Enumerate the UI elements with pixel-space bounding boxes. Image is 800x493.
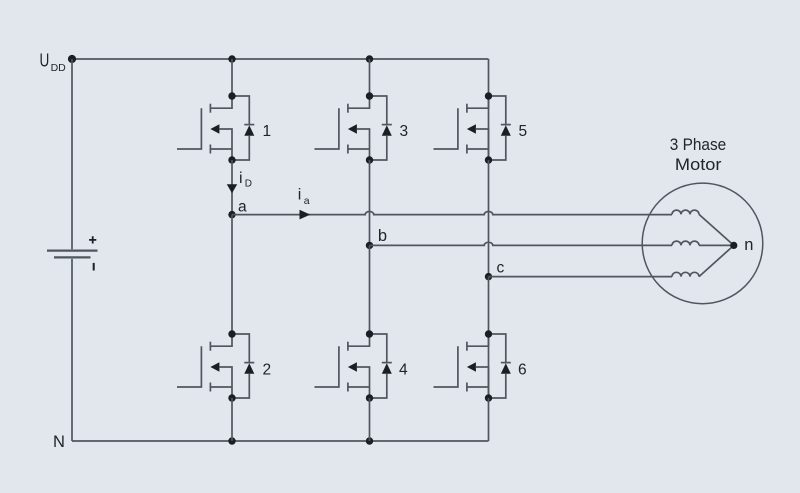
wire: winding c to star point n — [699, 245, 734, 276]
wire: Q6 source to N rail — [488, 398, 490, 441]
battery positive plate — [47, 249, 98, 251]
wire: node b down to Q4 drain — [369, 245, 371, 334]
svg-text:4: 4 — [399, 362, 408, 379]
winding phase a inductor — [672, 210, 699, 214]
battery negative plate — [54, 256, 91, 258]
motor circle outline — [642, 183, 763, 304]
node: junction top rail / phase leg 2 — [366, 55, 373, 62]
wire: Q3 source down across line a to node b — [369, 160, 371, 245]
svg-text:i: i — [298, 187, 302, 204]
svg-text:N: N — [53, 433, 65, 451]
svg-text:c: c — [497, 259, 505, 276]
svg-text:3 Phase: 3 Phase — [670, 135, 727, 154]
wire: leg2 rail to Q3 drain — [369, 59, 371, 96]
arrow iD current direction — [227, 184, 237, 193]
wire: phase line b from node b to motor with crossover hop — [370, 242, 673, 245]
node b dot — [366, 242, 373, 249]
transistor 1: N-MOSFET with body diode, high side phase a — [177, 92, 254, 163]
wire: phase line a from node a to motor with crossover hops — [232, 212, 672, 215]
transistor 4: N-MOSFET with body diode, low side phase b — [315, 330, 392, 401]
arrow ia current direction on phase a — [300, 210, 311, 220]
winding phase c inductor — [672, 272, 699, 276]
svg-text:i: i — [239, 170, 243, 187]
wire: winding a to star point n — [699, 214, 734, 245]
node: UDD terminal dot — [68, 55, 76, 63]
svg-text:3: 3 — [400, 123, 409, 140]
svg-text:DD: DD — [51, 62, 67, 74]
wire: leg1 rail to Q1 drain — [231, 59, 233, 96]
svg-text:2: 2 — [263, 362, 272, 379]
wire: leg3 rail corner to Q5 drain — [488, 59, 490, 96]
svg-text:a: a — [304, 195, 310, 207]
wire: top supply rail UDD — [72, 58, 489, 60]
wire: leg3 vertical through Q5 drain to source — [488, 96, 490, 160]
winding phase b inductor — [672, 241, 699, 245]
svg-text:D: D — [245, 178, 252, 189]
wire: Q4 source to N rail — [369, 398, 371, 441]
svg-text:n: n — [744, 236, 753, 254]
wire: winding b to star point n — [699, 244, 734, 246]
wire: phase line c from node c to motor — [489, 276, 673, 278]
transistor 3: N-MOSFET with body diode, high side phase b — [315, 92, 392, 163]
node n star point dot — [730, 242, 737, 249]
wire: Q1 source to node a — [231, 160, 233, 215]
wire: left branch from battery - plate down to N rail — [71, 259, 73, 441]
node: junction bottom rail / phase leg 2 — [366, 437, 373, 444]
svg-text:U: U — [40, 50, 50, 70]
transistor 6: N-MOSFET with body diode, low side phase c — [434, 330, 511, 401]
wire: Q5 source down across lines a and b to node c — [488, 160, 490, 277]
svg-text:Motor: Motor — [675, 155, 722, 174]
wire: left branch from UDD rail down to battery + plate — [71, 59, 73, 249]
wire: bottom rail N — [72, 440, 489, 442]
battery plus sign — [89, 236, 96, 243]
svg-text:b: b — [378, 227, 387, 245]
wire: node a down to Q2 drain — [231, 215, 233, 334]
wire: Q2 source to N rail — [231, 398, 233, 441]
svg-text:5: 5 — [519, 123, 528, 140]
node c dot — [485, 273, 492, 280]
svg-text:6: 6 — [518, 362, 527, 379]
battery minus mark — [93, 263, 95, 271]
svg-text:1: 1 — [263, 123, 272, 140]
node a dot — [228, 211, 235, 218]
node: junction top rail / phase leg 1 — [228, 55, 235, 62]
wire: leg3 vertical through Q6 drain to source — [488, 334, 490, 398]
transistor 2: N-MOSFET with body diode, low side phase a — [177, 330, 254, 401]
svg-text:a: a — [238, 198, 247, 215]
wire: node c down to Q6 drain — [488, 277, 490, 334]
transistor 5: N-MOSFET with body diode, high side phase c — [434, 92, 511, 163]
node: junction bottom rail / phase leg 1 — [228, 437, 235, 444]
